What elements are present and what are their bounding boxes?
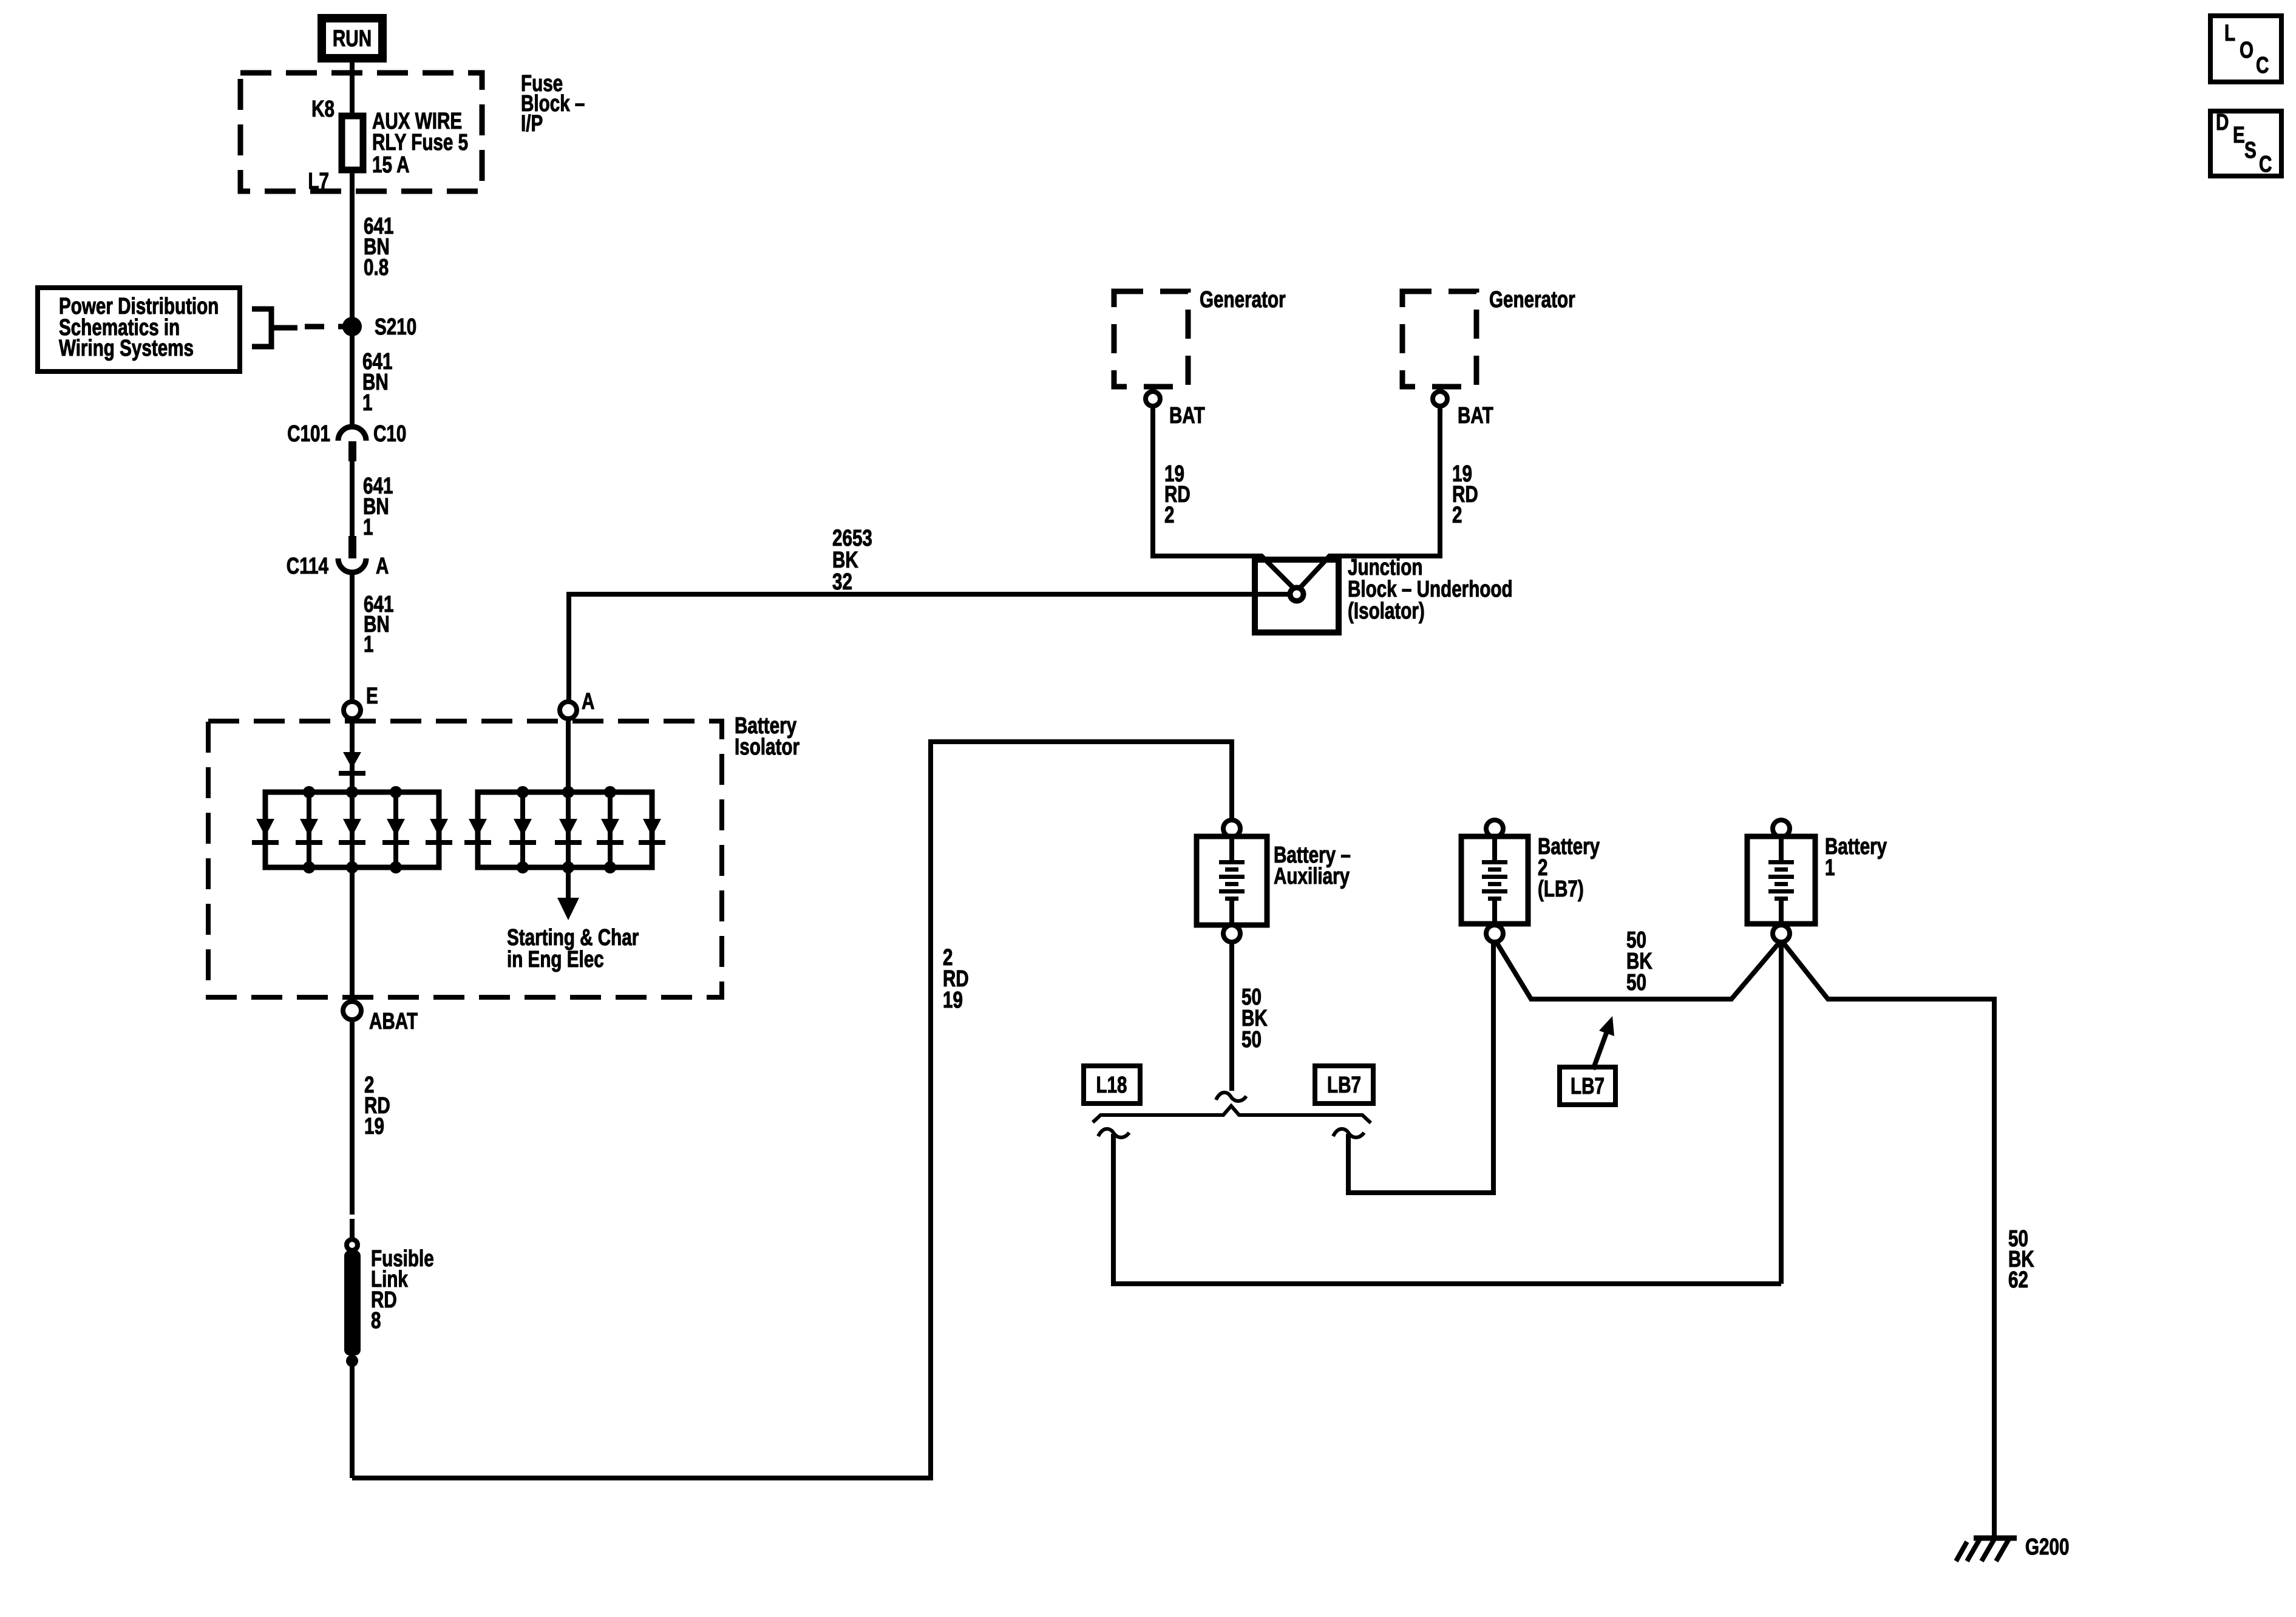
battery 2 box <box>1461 836 1528 924</box>
wire label 641 BN 1 <box>364 592 393 657</box>
label Fuse Block - I/P <box>521 71 585 137</box>
option box LB7 <box>1315 1066 1373 1103</box>
diode D1 <box>252 819 279 845</box>
svg-text:50: 50 <box>1626 970 1646 995</box>
svg-text:K8: K8 <box>311 97 335 122</box>
label Junction Block - Underhood (Isolator) <box>1348 555 1513 624</box>
label Starting & Char in Eng Elec <box>507 925 639 972</box>
svg-text:L: L <box>2224 21 2235 46</box>
splice S210 <box>342 317 362 336</box>
option brace <box>1093 1106 1371 1123</box>
wire label 2 RD 19 <box>943 945 969 1013</box>
svg-text:E: E <box>366 683 378 709</box>
label Battery 2 (LB7) <box>1538 834 1600 902</box>
diode array 2 frame <box>478 792 652 867</box>
svg-text:BAT: BAT <box>1458 403 1493 429</box>
node E terminal <box>344 702 361 719</box>
svg-text:C10: C10 <box>373 421 406 447</box>
wire label 50 BK 50 <box>1241 985 1268 1053</box>
svg-text:1: 1 <box>1825 855 1835 881</box>
battery auxiliary negative terminal <box>1223 925 1240 942</box>
wire fusible link to bottom corner <box>350 1361 355 1478</box>
svg-text:S210: S210 <box>375 314 416 340</box>
svg-text:Isolator: Isolator <box>735 734 800 760</box>
diode D4 <box>382 819 409 845</box>
svg-text:(LB7): (LB7) <box>1538 876 1584 902</box>
svg-text:A: A <box>376 554 389 579</box>
label Battery - Auxiliary <box>1274 842 1351 889</box>
svg-text:Wiring Systems: Wiring Systems <box>59 336 194 361</box>
callout box Power Distribution Schematics in Wiring Systems <box>38 288 240 371</box>
wire battery auxiliary to option split <box>1229 942 1234 1091</box>
battery auxiliary box <box>1197 836 1267 925</box>
svg-text:L7: L7 <box>308 169 329 194</box>
diode D6 <box>464 819 491 845</box>
diode D10 <box>639 819 665 845</box>
dashed reference wire to S210 <box>305 324 347 330</box>
wire ABAT to fusible link <box>350 1020 355 1215</box>
node BAT terminal generator 1 <box>1146 392 1160 406</box>
svg-text:8: 8 <box>371 1308 381 1334</box>
svg-text:32: 32 <box>832 569 852 595</box>
battery auxiliary positive terminal <box>1223 820 1240 837</box>
wire generator 1 to junction block <box>1153 406 1295 589</box>
generator 2 dashed box <box>1402 291 1476 387</box>
svg-text:LB7: LB7 <box>1571 1074 1605 1099</box>
svg-text:C114: C114 <box>287 554 328 579</box>
svg-text:50: 50 <box>1241 1027 1262 1053</box>
wire A into isolator <box>566 719 571 792</box>
LB7 branch tilde <box>1333 1129 1364 1137</box>
wire C101 to C114 <box>350 461 355 536</box>
wire label 2 RD 19 <box>364 1073 390 1139</box>
junction dots array 1 <box>303 786 315 798</box>
wire fuse to S210 <box>350 173 355 426</box>
svg-text:I/P: I/P <box>521 111 543 137</box>
svg-text:Generator: Generator <box>1489 287 1575 313</box>
svg-text:RUN: RUN <box>333 26 372 52</box>
svg-text:19: 19 <box>943 988 963 1013</box>
battery isolator dashed box <box>208 721 722 997</box>
wire label 19 RD 2 <box>1164 461 1190 528</box>
svg-text:BAT: BAT <box>1169 403 1205 429</box>
junction block terminal circle <box>1290 588 1303 601</box>
wire LB7 branch to battery 2 <box>1348 942 1493 1193</box>
wire label 641 BN 1 <box>362 349 392 416</box>
svg-text:LB7: LB7 <box>1327 1073 1361 1098</box>
battery 1 cell symbol <box>1768 839 1794 921</box>
label Battery Isolator <box>735 713 800 760</box>
battery auxiliary cell symbol <box>1219 839 1245 923</box>
diode D5 <box>426 819 452 845</box>
svg-text:Generator: Generator <box>1200 287 1286 313</box>
diode array 1 frame <box>265 792 439 867</box>
L18 branch tilde <box>1098 1129 1129 1137</box>
fuse AUX WIRE RLY Fuse 5 15A <box>342 116 363 170</box>
wire array 1 to ABAT <box>350 867 355 1002</box>
svg-text:2: 2 <box>1164 503 1174 528</box>
wire label 19 RD 2 <box>1452 461 1478 528</box>
wire L18 branch to battery 1 <box>1113 1134 1781 1284</box>
battery 2 negative terminal <box>1486 925 1503 942</box>
svg-text:2: 2 <box>1452 503 1462 528</box>
wire label 50 BK 62 <box>2008 1226 2034 1293</box>
wire 2653 junction block to A <box>569 594 1289 702</box>
svg-text:G200: G200 <box>2025 1534 2069 1560</box>
diode D0 main <box>339 752 365 776</box>
svg-text:ABAT: ABAT <box>369 1009 418 1034</box>
svg-text:C: C <box>2256 53 2269 78</box>
junction dots array 2 <box>517 786 529 798</box>
switch position RUN <box>322 18 382 58</box>
svg-text:0.8: 0.8 <box>364 255 389 280</box>
svg-text:E: E <box>2233 123 2245 148</box>
battery 1 negative terminal <box>1773 925 1790 942</box>
wire to Starting and Charging arrow <box>566 867 571 900</box>
svg-text:1: 1 <box>363 515 373 540</box>
diode branch wires <box>307 792 311 867</box>
LB7 callout box with arrow <box>1560 1016 1615 1105</box>
callout bracket <box>252 309 297 347</box>
generator 1 dashed box <box>1114 291 1188 387</box>
battery 2 positive terminal <box>1486 820 1503 837</box>
wire label 2653 BK 32 <box>832 526 872 595</box>
wire 50 BK 62 battery 1 to G200 <box>1784 943 1994 1536</box>
svg-text:(Isolator): (Isolator) <box>1348 598 1425 624</box>
wire C114 to E <box>350 573 355 702</box>
wire label 641 BN 0.8 <box>364 214 393 280</box>
diode D2 <box>296 819 322 845</box>
wire RUN to fuse <box>350 63 355 115</box>
wire 50 BK 50 battery 2 to battery 1 <box>1497 943 1779 999</box>
connector C101 C10 <box>287 421 406 461</box>
diode D8 <box>555 819 582 845</box>
diode D3 <box>339 819 365 845</box>
fuse block I/P dashed box <box>240 73 482 191</box>
svg-text:D: D <box>2216 110 2229 135</box>
svg-text:in Eng Elec: in Eng Elec <box>507 947 604 972</box>
label Battery 1 <box>1825 834 1887 881</box>
node A terminal <box>560 702 577 719</box>
fusible link label <box>371 1246 434 1334</box>
ground G200 <box>1956 1538 2017 1561</box>
junction block underhood isolator box <box>1255 560 1339 632</box>
svg-text:L18: L18 <box>1096 1073 1127 1098</box>
connector C114 A <box>287 536 389 579</box>
svg-text:C101: C101 <box>287 421 330 447</box>
svg-text:A: A <box>582 689 594 714</box>
battery 1 box <box>1747 836 1815 924</box>
wire E into isolator <box>350 719 355 792</box>
wire battery 1 down to L18 run <box>1779 942 1784 1284</box>
diode D7 <box>509 819 536 845</box>
svg-text:15 A: 15 A <box>372 152 409 178</box>
battery 1 positive terminal <box>1773 820 1790 837</box>
svg-text:1: 1 <box>362 390 372 416</box>
DESC reference box <box>2210 110 2281 177</box>
wire generator 2 to junction block <box>1299 406 1440 589</box>
option box L18 <box>1084 1066 1140 1103</box>
wire 2 RD 19 bottom run to battery auxiliary <box>352 742 1232 1478</box>
fusible link RD 8 <box>344 1239 361 1367</box>
node ABAT terminal <box>343 1002 361 1020</box>
battery 2 cell symbol <box>1482 839 1507 921</box>
LOC reference box <box>2210 16 2281 82</box>
wire label 641 BN 1 <box>363 473 393 540</box>
wire label 50 BK 50 <box>1626 927 1652 995</box>
fuse value label <box>372 109 468 178</box>
svg-text:19: 19 <box>364 1114 384 1139</box>
diode branch wires <box>520 792 525 867</box>
wire end tilde <box>1216 1093 1246 1101</box>
svg-text:S: S <box>2244 138 2257 163</box>
svg-text:62: 62 <box>2008 1267 2028 1293</box>
node BAT terminal generator 2 <box>1433 392 1447 406</box>
svg-text:1: 1 <box>364 632 373 657</box>
svg-text:O: O <box>2240 38 2254 63</box>
diode D9 <box>597 819 623 845</box>
svg-text:Auxiliary: Auxiliary <box>1274 864 1350 889</box>
svg-text:C: C <box>2259 152 2272 177</box>
